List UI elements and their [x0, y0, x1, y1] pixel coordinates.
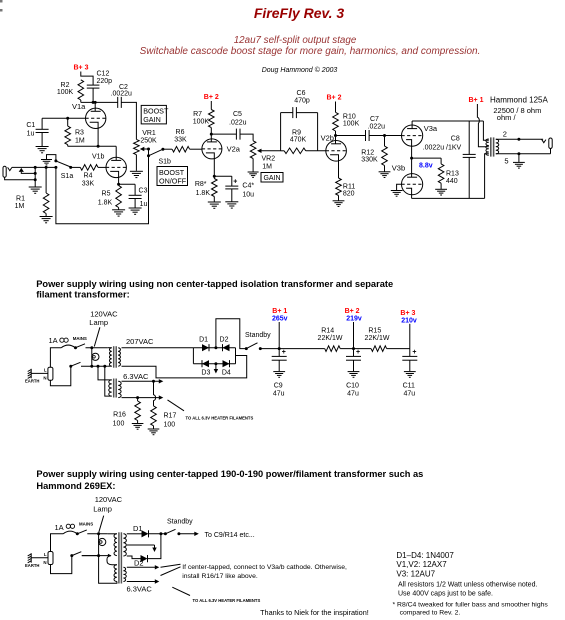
svg-text:C11: C11	[403, 382, 415, 389]
capacitor C5	[236, 129, 240, 140]
ground VR1	[130, 171, 143, 177]
triode V1a	[86, 108, 106, 128]
triode V2b	[326, 141, 347, 162]
wire OT secondary top	[496, 138, 543, 141]
svg-text:47u: 47u	[347, 390, 359, 397]
wire fil primary feed A	[97, 365, 112, 380]
svg-text:Lamp: Lamp	[93, 505, 112, 514]
svg-text:C6: C6	[297, 90, 306, 97]
wire V3b grid ground	[397, 184, 402, 190]
svg-text:C4*: C4*	[242, 183, 254, 190]
svg-text:100: 100	[164, 422, 176, 429]
wire V1a grid	[42, 117, 85, 119]
svg-text:D1: D1	[133, 524, 143, 533]
triode V2a	[202, 139, 222, 159]
svg-text:Standby: Standby	[167, 519, 193, 526]
label D1 D2	[199, 337, 228, 344]
svg-text:install R16/17 like above.: install R16/17 like above.	[182, 573, 258, 580]
svg-text:10u: 10u	[242, 192, 254, 199]
svg-text:L: L	[44, 368, 47, 373]
label B+2 node	[345, 308, 362, 349]
svg-text:+: +	[233, 179, 237, 186]
label BOOST GAIN box	[141, 105, 169, 124]
svg-text:.0022u /1KV: .0022u /1KV	[423, 144, 462, 151]
label L N 2	[43, 552, 46, 565]
label R10	[343, 114, 360, 128]
thanks note	[260, 608, 369, 617]
svg-text:VR1: VR1	[142, 130, 156, 137]
svg-text:D2: D2	[134, 559, 144, 568]
resistor R2	[78, 80, 84, 103]
svg-text:VR2: VR2	[262, 156, 276, 163]
label S1b	[159, 159, 172, 166]
label OT impedance	[493, 106, 541, 122]
svg-text:V1b: V1b	[92, 154, 105, 161]
svg-text:+: +	[412, 349, 416, 356]
svg-text:R6: R6	[176, 129, 185, 136]
resistor R16	[135, 398, 141, 424]
wire B+1 lead with hop	[477, 104, 488, 147]
label heaters 2	[193, 598, 261, 603]
svg-text:B+ 1: B+ 1	[469, 97, 484, 104]
heading psu 2	[36, 469, 423, 491]
wire R9 left	[281, 150, 285, 152]
svg-text:250K: 250K	[140, 138, 157, 145]
svg-text:1M: 1M	[15, 203, 25, 210]
notes tweak	[393, 601, 549, 616]
wire R4 to V1b grid	[98, 166, 106, 168]
wire V3a plate	[411, 121, 413, 129]
wire B+3 lead	[81, 72, 93, 86]
capacitor C3	[129, 184, 142, 198]
svg-text:Standby: Standby	[245, 332, 271, 339]
wire standby out	[179, 532, 199, 536]
wire B+ rail a	[260, 347, 324, 350]
svg-text:Thanks to Niek for the inspira: Thanks to Niek for the inspiration!	[260, 608, 369, 617]
lamp pilot 1	[90, 346, 99, 368]
label R9	[290, 130, 307, 144]
label OT pin 5	[504, 156, 508, 165]
svg-text:C10: C10	[346, 382, 359, 389]
svg-text:219v: 219v	[346, 316, 362, 323]
svg-text:Lamp: Lamp	[89, 318, 108, 327]
ground C1	[36, 133, 49, 153]
svg-text:MAINS: MAINS	[73, 336, 87, 341]
svg-text:47u: 47u	[273, 390, 285, 397]
connector IEC inlet 2	[48, 552, 53, 565]
svg-text:R14: R14	[321, 327, 334, 334]
svg-text:S1a: S1a	[61, 173, 74, 180]
svg-text:22K/1W: 22K/1W	[318, 335, 343, 342]
svg-text:R5: R5	[102, 191, 111, 198]
diode D2 bottom section	[141, 555, 148, 562]
svg-text:1.8K: 1.8K	[196, 190, 211, 197]
wire V1b cathode	[117, 178, 120, 186]
svg-text:12au7 self-split output stage: 12au7 self-split output stage	[234, 35, 357, 46]
label MAINS 2	[79, 522, 93, 527]
svg-text:MAINS: MAINS	[79, 522, 93, 527]
resistor R17	[151, 406, 157, 429]
label Standby 1	[245, 332, 271, 339]
wire cascode node	[68, 145, 117, 147]
svg-text:Use 400V caps just to be safe.: Use 400V caps just to be safe.	[398, 590, 493, 597]
svg-text:R16: R16	[113, 412, 126, 419]
transformer T3 fil secondary	[123, 567, 126, 581]
capacitor C11	[402, 349, 417, 398]
ground V3b grid	[391, 191, 403, 197]
svg-text:R12: R12	[361, 150, 374, 157]
wire V2a cathode	[213, 159, 216, 178]
ground R13	[435, 189, 447, 195]
wire D2 out	[148, 534, 161, 559]
svg-text:D3: D3	[201, 370, 210, 377]
label B+3 top	[74, 65, 89, 72]
node bridge mid top	[214, 346, 217, 349]
wire fil primary feed B	[103, 365, 111, 396]
pointer heaters 1	[168, 400, 185, 411]
wire jack sleeve	[5, 177, 36, 180]
wire R9 right	[306, 150, 326, 152]
fuse F1 body	[61, 345, 75, 348]
label EARTH 1	[25, 379, 39, 384]
wire mains lower 1b	[81, 365, 108, 367]
wire C6 branch right	[296, 113, 317, 151]
wire V3a cathode to V3b plate	[411, 158, 413, 177]
wire bridge top	[193, 347, 235, 349]
earth symbol 2	[28, 553, 48, 563]
node jack ground junction	[34, 166, 37, 187]
lamp pilot 2	[97, 532, 106, 557]
potentiometer VR2	[250, 141, 256, 172]
label C4 plus	[233, 179, 237, 186]
label V3a	[424, 124, 438, 133]
svg-text:ON/OFF: ON/OFF	[159, 176, 187, 185]
ground R8	[208, 202, 221, 208]
label R8	[195, 181, 211, 197]
ground input jack	[29, 187, 42, 193]
svg-text:220p: 220p	[97, 78, 113, 85]
svg-text:D2: D2	[220, 337, 229, 344]
capacitor C4	[225, 176, 238, 202]
svg-text:100K: 100K	[57, 89, 74, 96]
wire mains L 1	[50, 348, 61, 368]
transformer T2 core	[114, 379, 117, 398]
wire mains L 2	[51, 534, 64, 552]
wire R7 to V2a plate	[210, 134, 212, 142]
svg-text:.022u: .022u	[229, 120, 247, 127]
label R2	[57, 82, 74, 96]
resistor R9	[284, 148, 306, 154]
label center tap note	[182, 564, 347, 580]
svg-text:470K: 470K	[290, 137, 307, 144]
svg-text:6.3VAC: 6.3VAC	[123, 372, 149, 381]
pointer lamp 1	[94, 327, 100, 346]
svg-text:V1a: V1a	[72, 102, 86, 111]
wire plate top rail	[412, 120, 483, 122]
wire 6.3 bottom 2	[127, 579, 160, 583]
svg-text:Switchable cascode boost stage: Switchable cascode boost stage for more …	[140, 46, 481, 57]
wire 6.3 top	[122, 379, 164, 383]
wire OT secondary bottom	[496, 152, 551, 155]
transformer OT secondary winding	[496, 139, 499, 154]
speaker jack tip	[542, 139, 546, 142]
resistor R11	[336, 178, 342, 201]
svg-text:S1b: S1b	[159, 159, 172, 166]
ground bridge center	[214, 364, 218, 374]
switch standby 2	[164, 529, 181, 535]
label V1a	[72, 102, 86, 111]
svg-text:C8: C8	[451, 135, 460, 142]
wire V1b cathode to C3	[119, 183, 136, 185]
label R5	[98, 191, 113, 207]
wire V1a plate node	[81, 101, 118, 103]
wire B+2 lead 2	[335, 102, 337, 113]
wire R17 feed with hop	[154, 381, 156, 406]
resistor R5	[116, 184, 122, 207]
svg-text:820: 820	[343, 191, 355, 198]
resistor R12	[382, 136, 388, 172]
svg-text:To C9/R14 etc...: To C9/R14 etc...	[205, 532, 255, 539]
pointer center tap note b	[161, 567, 181, 576]
label 120VAC lamp 2	[93, 495, 122, 514]
capacitor C10	[346, 349, 361, 398]
svg-text:1A: 1A	[55, 523, 64, 532]
label R6	[174, 129, 187, 144]
label 8.8v	[419, 163, 433, 170]
label B+2 first	[204, 94, 219, 101]
wire B+ rail c	[387, 348, 410, 350]
svg-text:6.3VAC: 6.3VAC	[127, 585, 153, 594]
wire V3b cathode	[411, 194, 413, 199]
svg-text:2: 2	[503, 129, 507, 138]
svg-text:ohm /: ohm /	[497, 113, 517, 122]
fuse F1 symbol	[60, 338, 68, 342]
label to C9 R14	[205, 532, 255, 539]
scan artifact top left	[0, 0, 3, 12]
svg-text:V2a: V2a	[227, 145, 241, 154]
svg-text:C9: C9	[274, 382, 283, 389]
node bridge mid bottom	[214, 362, 217, 365]
resistor R8	[212, 176, 218, 202]
label L N 1	[43, 368, 46, 381]
transformer T3 fil left winding	[107, 556, 117, 582]
wire mains upper 2b	[87, 533, 108, 535]
svg-text:N: N	[43, 560, 46, 565]
wire V1a cathode	[97, 128, 100, 148]
label V3b	[392, 163, 405, 172]
label GAIN box	[261, 173, 283, 183]
wire B+ rail b	[340, 347, 371, 350]
resistor R3	[65, 117, 71, 147]
wire primary bottom arrow	[108, 554, 112, 558]
svg-text:All resistors 1/2 Watt unless: All resistors 1/2 Watt unless otherwise …	[398, 582, 537, 589]
wire mains N 2	[51, 556, 72, 574]
label R13	[446, 171, 459, 186]
label MAINS 1	[73, 336, 87, 341]
pointer heaters 2	[172, 587, 190, 595]
wire R1 top	[45, 166, 48, 193]
svg-text:D1–D4: 1N4007: D1–D4: 1N4007	[396, 551, 454, 560]
svg-text:1M: 1M	[262, 164, 272, 171]
svg-text:1M: 1M	[75, 138, 85, 145]
diode D4	[223, 360, 230, 367]
wire C7 to V3a grid	[369, 134, 401, 137]
label C5	[229, 111, 247, 127]
label R15	[365, 327, 390, 342]
label V2a	[227, 145, 241, 154]
label VR1	[140, 130, 157, 145]
svg-text:R1: R1	[16, 196, 25, 203]
label OT pin 2	[503, 129, 507, 138]
label D2 bottom	[134, 559, 144, 568]
connector IEC inlet 1	[48, 367, 53, 380]
diode bridge frame	[193, 348, 235, 364]
wire B+2 lead	[210, 101, 212, 110]
input jack tip arrow	[19, 168, 36, 174]
svg-text:FireFly Rev. 3: FireFly Rev. 3	[254, 5, 344, 21]
svg-text:R7: R7	[193, 111, 202, 118]
wire 6.3 bottom	[122, 395, 164, 399]
svg-text:V1,V2: 12AX7: V1,V2: 12AX7	[396, 560, 447, 569]
svg-text:R10: R10	[343, 114, 356, 121]
svg-text:22K/1W: 22K/1W	[365, 335, 390, 342]
svg-text:* R8/C4 tweaked for fuller bas: * R8/C4 tweaked for fuller bass and smoo…	[393, 601, 549, 608]
wire plate to OT primary	[483, 121, 488, 140]
svg-text:Power supply wiring using cent: Power supply wiring using center-tapped …	[36, 469, 423, 479]
capacitor C8	[463, 121, 476, 198]
capacitor C1	[36, 118, 49, 132]
svg-text:R11: R11	[343, 184, 355, 191]
label V1b	[92, 154, 105, 161]
svg-text:GAIN: GAIN	[143, 115, 161, 124]
switch mains lower 1	[69, 362, 80, 367]
fuse F2 symbol	[66, 524, 74, 528]
capacitor C6	[293, 107, 297, 118]
title	[254, 5, 344, 21]
label B+1 node	[272, 308, 288, 349]
label 207VAC	[126, 337, 154, 346]
svg-text:R2: R2	[61, 82, 70, 89]
svg-text:filament transformer:: filament transformer:	[36, 289, 130, 299]
svg-text:D4: D4	[222, 370, 231, 377]
resistor R7	[209, 110, 215, 136]
vr1 wiper arrow	[140, 147, 150, 151]
svg-text:265v: 265v	[272, 316, 288, 323]
transformer T3 core	[119, 532, 122, 583]
svg-text:+: +	[356, 349, 360, 356]
fuse F2 body	[63, 531, 77, 534]
subtitle line 1	[234, 35, 357, 46]
transformer OT core	[491, 137, 494, 156]
potentiometer VR1	[134, 139, 140, 170]
svg-text:C1: C1	[26, 122, 35, 129]
transformer T2 secondary	[118, 381, 121, 397]
svg-text:330K: 330K	[361, 157, 378, 164]
switch S1b	[147, 148, 164, 158]
wire OT primary bottom	[485, 154, 489, 199]
resistor R14	[325, 346, 341, 352]
label EARTH 2	[25, 563, 39, 568]
svg-text:120VAC: 120VAC	[95, 495, 123, 504]
speaker jack J2	[549, 138, 552, 154]
svg-text:EARTH: EARTH	[25, 379, 39, 384]
ground OT secondary	[513, 154, 525, 168]
svg-text:V3a: V3a	[424, 124, 438, 133]
svg-text:B+ 1: B+ 1	[272, 308, 287, 315]
svg-text:compared to Rev. 2.: compared to Rev. 2.	[400, 610, 461, 617]
label C7	[368, 116, 386, 131]
switch mains lower 2	[70, 552, 81, 557]
triode V3b	[402, 174, 423, 195]
transformer T3 HV secondary	[123, 534, 126, 556]
ground R12	[379, 172, 391, 178]
svg-text:1u: 1u	[140, 201, 148, 208]
svg-text:N: N	[43, 376, 46, 381]
diode D1 bottom section	[142, 530, 149, 537]
wire boost return rail	[56, 156, 149, 224]
label B+2 second	[327, 95, 342, 102]
svg-text:207VAC: 207VAC	[126, 337, 154, 346]
wire HV center tap	[127, 545, 157, 552]
svg-text:100K: 100K	[193, 119, 210, 126]
label V2b	[321, 133, 334, 142]
notes resistors	[398, 582, 537, 598]
diode D3	[202, 360, 209, 367]
label Standby 2	[167, 519, 193, 526]
label VR2	[262, 156, 276, 171]
wire mains upper 1b	[86, 347, 108, 349]
ground R1	[40, 214, 53, 223]
svg-text:B+ 2: B+ 2	[327, 95, 342, 102]
label B+3 node	[400, 310, 416, 349]
switch S1a	[54, 159, 72, 169]
resistor R1	[43, 193, 49, 214]
svg-text:.022u: .022u	[368, 124, 386, 131]
svg-text:R3: R3	[75, 130, 84, 137]
switch standby 1	[245, 343, 262, 350]
label 6.3VAC 1	[123, 372, 149, 381]
diode D2	[223, 344, 230, 351]
label S1a	[61, 173, 74, 180]
switch mains upper 1	[74, 344, 85, 349]
resistor R6	[163, 146, 190, 152]
svg-text:100K: 100K	[343, 121, 360, 128]
label C12	[97, 71, 113, 86]
wire V3a cathode	[410, 146, 413, 160]
triode V3a	[402, 125, 423, 146]
svg-text:If center-tapped, connect to V: If center-tapped, connect to V3a/b catho…	[182, 564, 347, 571]
label Hammond 125A	[490, 95, 548, 104]
wire C5 to VR2	[240, 134, 253, 141]
ground S1a mute	[41, 155, 56, 165]
wire C6 branch left	[281, 113, 293, 151]
svg-text:R4: R4	[84, 173, 93, 180]
label C2	[111, 84, 133, 98]
label 6.3VAC 2	[127, 585, 153, 594]
label R3	[75, 130, 85, 145]
svg-text:Doug Hammond © 2003: Doug Hammond © 2003	[262, 66, 338, 74]
label C4	[242, 183, 254, 199]
wire 207 secondary top	[122, 347, 194, 349]
svg-text:5: 5	[504, 156, 508, 165]
wire cathode to C4	[214, 175, 232, 177]
svg-text:C5: C5	[233, 111, 242, 118]
resistor R4	[80, 165, 98, 171]
label fuse 1A	[49, 336, 58, 345]
triode V1b	[106, 157, 126, 177]
label R12	[361, 150, 378, 164]
svg-text:440: 440	[446, 178, 458, 185]
